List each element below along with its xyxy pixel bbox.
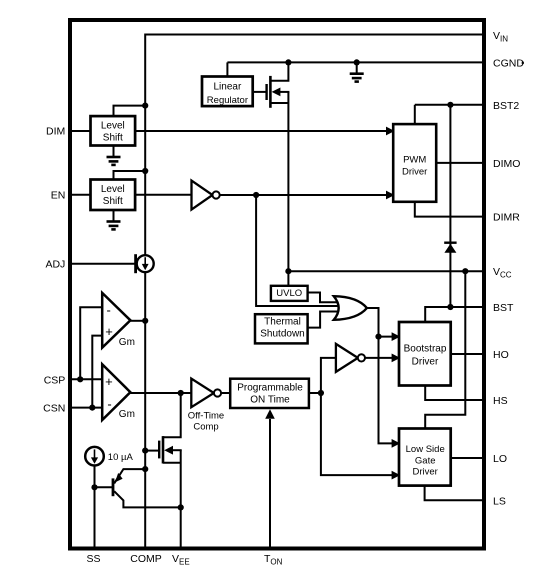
wire DIM level shift output to PWM driver	[135, 130, 392, 132]
svg-text:Gate: Gate	[415, 455, 436, 466]
wire EN pin to level shift	[69, 194, 91, 196]
svg-text:LS: LS	[493, 495, 506, 507]
wire U2 output to Q1 gate	[253, 91, 265, 93]
wire CSN pin to Gm2 - input	[69, 407, 102, 409]
inverter U4 off-time comp	[191, 379, 221, 408]
svg-text:-: -	[107, 303, 111, 318]
pin label VEE	[172, 553, 190, 567]
svg-text:Driver: Driver	[412, 356, 439, 367]
wire Gm1 inverting input to CSP	[80, 307, 102, 379]
node junction bus/DIM level shift	[142, 103, 148, 109]
pin TON stem with up arrow	[265, 409, 275, 548]
svg-text:Thermal: Thermal	[264, 316, 301, 327]
svg-text:ON Time: ON Time	[250, 395, 290, 406]
pin label DIMO	[493, 158, 520, 170]
svg-text:+: +	[105, 324, 113, 339]
pin label VIN	[493, 30, 508, 44]
arrowhead into bootstrap driver lower input	[392, 354, 401, 363]
transistor Q2 gate bar	[158, 441, 160, 459]
node junction prog output branch	[318, 390, 324, 396]
svg-text:Shift: Shift	[103, 196, 123, 207]
svg-text:DIMO: DIMO	[493, 158, 520, 170]
thermal shutdown block	[255, 314, 308, 343]
wire EN shutdown branch down to OR gate	[256, 195, 338, 306]
svg-text:Regulator: Regulator	[207, 95, 248, 106]
svg-text:Low Side: Low Side	[406, 444, 445, 455]
transistor Q1 pass NMOS gate bar	[265, 84, 267, 100]
wire Gm1 non-inverting input to CSN	[92, 336, 102, 408]
arrowhead into bootstrap driver upper input	[392, 332, 401, 341]
wire CSP pin to Gm2 + input	[69, 378, 102, 380]
pin label LO	[493, 453, 507, 465]
pin label VCC	[493, 266, 512, 280]
wire VCC line	[288, 270, 483, 272]
transistor Q2 body stub with arrow	[164, 446, 182, 455]
svg-text:CSN: CSN	[43, 403, 65, 415]
transistor Q2 drain stub up to Gm2 output	[163, 395, 181, 438]
svg-text:+: +	[105, 374, 113, 389]
wire Linear Regulator top stem	[226, 62, 228, 76]
arrowhead into PWM driver upper input	[386, 127, 395, 136]
svg-text:CSP: CSP	[44, 374, 66, 386]
node junction diode rail / BST	[447, 304, 453, 310]
arrowhead into PWM driver lower input	[386, 191, 395, 200]
wire PWM right to DIMO	[436, 162, 483, 164]
bootstrap driver block	[399, 322, 451, 386]
pin label HS	[493, 395, 508, 407]
OR gate U6	[334, 296, 367, 320]
pin label DIM	[46, 125, 65, 137]
wire low side right to LO	[451, 457, 484, 459]
node junction Q2 gate on bus	[142, 448, 148, 454]
node junction BST2 / diode rail	[447, 102, 453, 108]
svg-text:EN: EN	[51, 189, 66, 201]
node junction Gm1 output on bus	[142, 318, 148, 324]
low side gate driver block	[399, 429, 451, 486]
transistor Q3 emitter with arrow	[114, 469, 145, 483]
wire Q1 source down to UVLO (via VCC junction)	[287, 92, 289, 286]
wire diode rail BST2 to BST	[449, 105, 451, 307]
wire PWM bottom to DIMR	[415, 202, 484, 217]
wire BST2 line	[415, 104, 484, 106]
svg-text:HS: HS	[493, 395, 508, 407]
wire thermal shutdown output to OR gate	[308, 312, 338, 328]
svg-text:Comp: Comp	[193, 421, 218, 432]
svg-text:10 µA: 10 µA	[108, 452, 134, 463]
svg-text:BST2: BST2	[493, 100, 519, 112]
pin label LS	[493, 495, 506, 507]
node junction VCC / driver supply rail	[462, 268, 468, 274]
wire EN level shift output to inverter U3	[135, 194, 191, 196]
pin label BST	[493, 302, 514, 314]
wire prog output up to inverter U5	[321, 358, 336, 393]
wire prog output	[309, 392, 321, 394]
svg-text:Driver: Driver	[413, 467, 438, 478]
node junction bus/EN level shift	[142, 168, 148, 174]
svg-text:LO: LO	[493, 453, 507, 465]
level shift block (DIM)	[91, 116, 136, 145]
wire low side bottom to LS	[425, 486, 484, 501]
svg-text:Level: Level	[101, 184, 125, 195]
svg-text:Level: Level	[101, 121, 125, 132]
inverter U5	[336, 344, 365, 372]
pin label BST2	[493, 100, 519, 112]
ground symbol under EN level shift	[107, 210, 121, 229]
wire U3 output to PWM driver lower input	[220, 194, 392, 196]
pin label CSN	[43, 403, 65, 415]
wire OR output down the driver enable rail	[367, 308, 397, 443]
svg-text:COMP: COMP	[130, 553, 162, 565]
op-amp Gm2 (bottom)	[102, 364, 135, 420]
node junction EN/shutdown branch	[253, 192, 259, 198]
label 10 uA	[108, 452, 134, 463]
node junction CSP/Gm1 wire	[77, 376, 83, 382]
svg-text:Off-Time: Off-Time	[188, 410, 224, 421]
wire U5 output to bootstrap lower input	[365, 357, 396, 359]
transistor Q3 base bar	[112, 478, 115, 496]
pin label TON	[264, 553, 283, 567]
node junction Q3 emitter on COMP bus	[142, 466, 148, 472]
arrowhead into low side driver upper input	[392, 439, 401, 448]
arrowhead into low side driver lower input	[392, 471, 401, 480]
wire VIN net: right corner of COMP bus to VIN pin	[145, 35, 483, 256]
svg-text:ADJ: ADJ	[45, 259, 65, 271]
svg-text:CGND: CGND	[493, 57, 524, 69]
node junction CGND/Q1 drain	[285, 59, 291, 65]
node junction CSN/Gm1 wire	[89, 405, 95, 411]
UVLO block	[271, 286, 308, 301]
svg-text:Gm: Gm	[119, 337, 135, 348]
svg-text:Bootstrap: Bootstrap	[404, 343, 447, 354]
wire VCC supply rail to low side driver top	[425, 271, 465, 428]
node junction CGND ground tap	[354, 59, 360, 65]
pin label CSP	[44, 374, 66, 386]
node junction SS / BJT base	[91, 484, 97, 490]
pin label HO	[493, 349, 509, 361]
PWM driver block	[393, 124, 436, 202]
diode D1	[444, 243, 456, 253]
wire SS net down to pin	[94, 466, 96, 549]
wire UVLO output to OR gate	[308, 293, 338, 303]
ground symbol under DIM level shift	[107, 146, 121, 165]
inverter U3 (EN)	[192, 181, 220, 210]
svg-text:HO: HO	[493, 349, 509, 361]
level shift block (EN)	[91, 180, 136, 211]
programmable on time block	[230, 379, 309, 408]
svg-text:SS: SS	[86, 553, 100, 565]
linear regulator block U2	[202, 77, 253, 107]
wire bootstrap right to HO	[451, 353, 484, 355]
wire SS to Q3 base	[95, 486, 113, 488]
svg-text:PWM: PWM	[403, 154, 426, 165]
node junction enable rail / bootstrap input	[375, 334, 381, 340]
transistor Q1 body stub with arrow	[272, 88, 290, 97]
wire prog output down to low side lower input	[321, 393, 396, 475]
current source I2 10uA	[85, 447, 104, 466]
transistor Q1 channel bar	[269, 76, 272, 108]
svg-text:Linear: Linear	[213, 81, 241, 92]
pin label SS	[86, 553, 100, 565]
transistor Q1 source stub	[270, 102, 288, 104]
transistor Q1 drain stub	[270, 64, 288, 81]
wire CGND net line	[227, 61, 483, 63]
wire BST line to bootstrap top	[425, 307, 483, 322]
pin label CGND	[493, 57, 524, 69]
transistor Q2 source stub	[163, 462, 181, 464]
pin label COMP	[130, 553, 162, 565]
transistor Q2 channel bar	[162, 436, 165, 463]
IC boundary box	[70, 20, 484, 549]
pin label ADJ	[45, 259, 65, 271]
wire Gm1 output to COMP bus	[131, 320, 146, 322]
node junction Gm2 output / VEE branch	[178, 390, 184, 396]
op-amp Gm1 (top)	[102, 293, 135, 348]
current source I1 (ADJ) circle	[137, 255, 154, 272]
label Off-Time Comp	[188, 410, 224, 432]
ground symbol on CGND line	[350, 62, 364, 81]
wire Gm2 output to off-time comparator	[131, 392, 192, 394]
svg-text:Programmable: Programmable	[237, 382, 303, 393]
svg-text:Shutdown: Shutdown	[260, 328, 304, 339]
current source I1 control bar	[134, 254, 137, 273]
wire ADJ pin to current source	[69, 263, 136, 265]
pin label DIMR	[493, 212, 520, 224]
wire bootstrap bottom to HS	[425, 386, 483, 401]
node junction VCC/UVLO stem	[285, 268, 291, 274]
wire level shift (EN) supply stem to COMP bus	[114, 171, 146, 180]
node junction VEE line	[178, 504, 184, 510]
wire COMP bus lower segment (current source to bottom border)	[144, 272, 146, 548]
svg-text:Driver: Driver	[402, 166, 427, 177]
pin label EN	[51, 189, 66, 201]
svg-text:DIM: DIM	[46, 125, 65, 137]
wire Q2 source down to VEE pin	[180, 450, 182, 548]
svg-text:Shift: Shift	[103, 133, 123, 144]
wire Q3 collector to VEE line	[114, 491, 181, 507]
wire level shift (DIM) supply stem to COMP bus	[114, 106, 146, 117]
svg-text:BST: BST	[493, 302, 514, 314]
wire U4 output to programmable on time	[221, 392, 230, 394]
wire PWM top to BST2	[414, 105, 416, 124]
wire DIM pin to level shift	[69, 130, 91, 132]
svg-text:UVLO: UVLO	[276, 288, 302, 299]
svg-text:-: -	[107, 396, 111, 411]
svg-text:DIMR: DIMR	[493, 212, 520, 224]
wire Q2 gate to COMP bus	[145, 450, 158, 452]
wire enable rail to bootstrap upper input	[379, 336, 397, 338]
svg-text:Gm: Gm	[119, 409, 135, 420]
